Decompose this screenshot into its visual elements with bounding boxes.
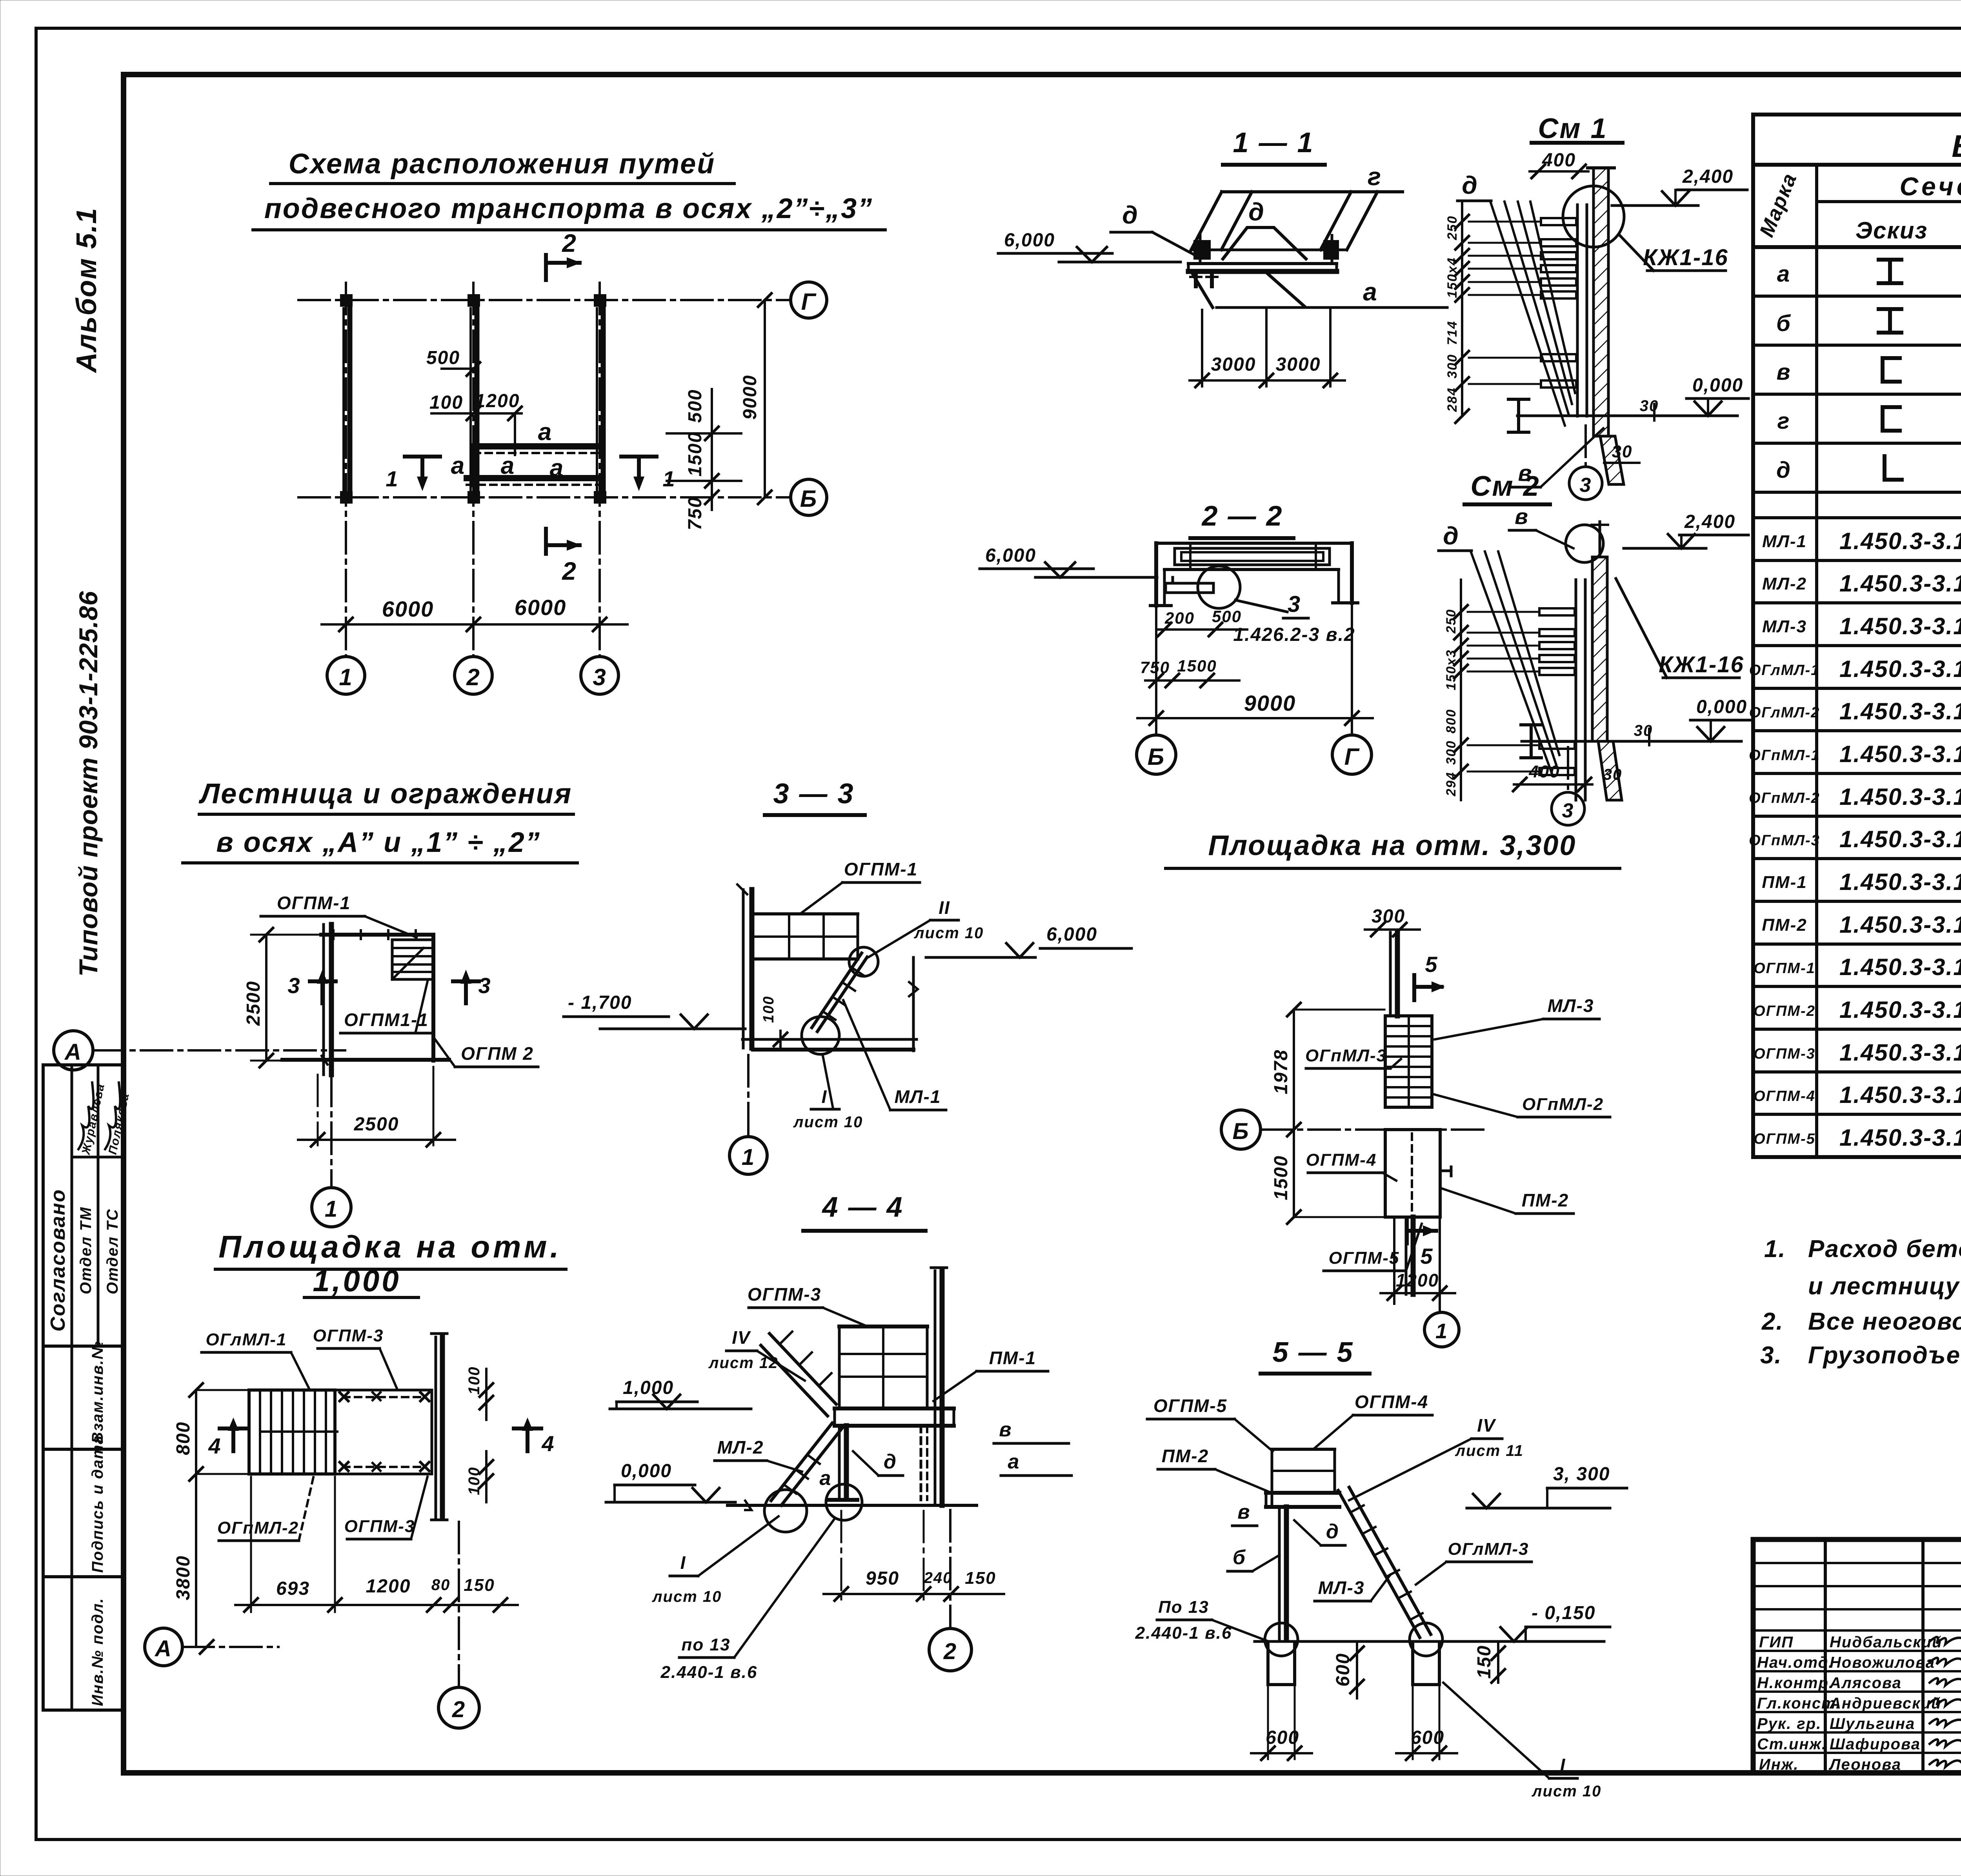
section 2-2 level mark 6.000 xyxy=(980,545,1157,577)
svg-text:1.450.3-3.1: 1.450.3-3.1 xyxy=(1839,1125,1961,1151)
stairs plan railing xyxy=(321,930,433,1061)
svg-text:Гл.конст.: Гл.конст. xyxy=(1757,1695,1841,1712)
platform 3.300 dim 1500 xyxy=(1271,1130,1384,1224)
svg-text:д: д xyxy=(1443,522,1459,550)
section 2-2 dims 200 500 xyxy=(1157,607,1247,636)
stairs plan axis circle 1 xyxy=(312,1075,351,1227)
section 4-4 platform beam xyxy=(835,1408,954,1426)
svg-text:1.450.3-3.1: 1.450.3-3.1 xyxy=(1839,741,1961,767)
platform 3.300 wall beam (top) xyxy=(1390,932,1397,1016)
svg-text:5 — 5: 5 — 5 xyxy=(1272,1337,1353,1368)
svg-text:г: г xyxy=(1368,162,1382,191)
svg-text:1,000: 1,000 xyxy=(623,1377,674,1398)
platform 3.300 section mark 5 (bottom) xyxy=(1407,1218,1436,1268)
section 2-2 axis circle Г xyxy=(1332,726,1372,774)
platform 3.300 wall beam (bottom) xyxy=(1406,1217,1413,1294)
svg-text:3 — 3: 3 — 3 xyxy=(773,778,854,810)
svg-text:I: I xyxy=(822,1086,828,1107)
platform 1.000 dim 800 xyxy=(173,1383,247,1481)
svg-text:Инж.: Инж. xyxy=(1759,1756,1799,1773)
section 5-5 column xyxy=(1279,1507,1286,1639)
svg-text:30: 30 xyxy=(1640,397,1659,415)
svg-text:ОГПМ-5: ОГПМ-5 xyxy=(1754,1131,1815,1147)
svg-text:300: 300 xyxy=(1445,354,1460,378)
section 3-3 title xyxy=(765,778,865,815)
stairs plan section mark 3 (right) xyxy=(453,970,491,1003)
section 3-3 right boundary xyxy=(909,957,918,1051)
svg-text:МЛ-1: МЛ-1 xyxy=(895,1086,941,1107)
svg-text:250: 250 xyxy=(1445,215,1460,240)
rotated text Подпись и дата xyxy=(89,1435,106,1573)
svg-text:6,000: 6,000 xyxy=(1004,230,1055,251)
section 5-5 ground line xyxy=(1255,1640,1588,1643)
svg-text:ОГПМ-3: ОГПМ-3 xyxy=(1754,1046,1815,1062)
section 1-1 floor slab (lower parallelogram) xyxy=(1191,271,1447,308)
svg-text:1.450.3-3.1: 1.450.3-3.1 xyxy=(1839,1082,1961,1108)
svg-text:4: 4 xyxy=(541,1431,555,1456)
svg-text:См 1: См 1 xyxy=(1538,113,1607,144)
svg-text:6000: 6000 xyxy=(515,595,567,620)
section 1-1 label д (left, with leader) xyxy=(1111,201,1195,255)
svg-text:ОГпМЛ-1: ОГпМЛ-1 xyxy=(1749,747,1820,764)
detail Cm1 node circle 3 xyxy=(1569,426,1639,500)
plan axis circle 1 xyxy=(327,657,365,694)
svg-text:II: II xyxy=(939,897,950,918)
platform 1.000 label ОГПМ-3 (bottom) xyxy=(344,1477,427,1539)
svg-text:ОГПМ-5: ОГПМ-5 xyxy=(1329,1248,1400,1268)
section 2-2 bracket detail with circle xyxy=(1166,566,1287,612)
svg-text:лист 10: лист 10 xyxy=(914,924,984,942)
svg-text:МЛ-3: МЛ-3 xyxy=(1762,617,1807,636)
svg-text:Ст.инж.: Ст.инж. xyxy=(1757,1736,1827,1753)
detail Cm1 label КЖ1-16 xyxy=(1619,235,1728,271)
section 5-5 label IV лист 11 xyxy=(1349,1415,1524,1500)
svg-text:Площадка на отм. 3,300: Площадка на отм. 3,300 xyxy=(1208,830,1577,861)
svg-text:Эскиз: Эскиз xyxy=(1855,217,1928,244)
svg-text:Алясова: Алясова xyxy=(1829,1674,1902,1692)
detail Cm2 left dim chain xyxy=(1444,580,1539,800)
section 1-1 monorail beam xyxy=(1188,264,1337,271)
platform 1.000 section mark 4 (left) xyxy=(208,1417,247,1458)
section 3-3 wall post xyxy=(737,884,752,1048)
svg-text:6,000: 6,000 xyxy=(985,545,1036,566)
svg-text:ОГПМ-1: ОГПМ-1 xyxy=(844,859,918,879)
svg-text:6,000: 6,000 xyxy=(1046,924,1097,945)
section 1-1 support connections xyxy=(1193,235,1339,262)
svg-text:Отдел ТМ: Отдел ТМ xyxy=(77,1206,95,1294)
rotated text Отдел ТС + signature xyxy=(104,1083,132,1294)
svg-text:а: а xyxy=(1777,261,1790,287)
svg-text:284: 284 xyxy=(1445,387,1460,412)
svg-text:Нач.отд.: Нач.отд. xyxy=(1757,1654,1834,1671)
svg-text:1.450.3-3.1: 1.450.3-3.1 xyxy=(1839,613,1961,639)
svg-text:б: б xyxy=(1233,1546,1246,1569)
detail Cm2 title xyxy=(1464,471,1550,504)
svg-text:Расход бетона М100 на фунд: Расход бетона М100 на фундаменты под сто… xyxy=(1808,1236,1961,1263)
table row в xyxy=(1776,358,1961,385)
section 3-3 label II лист 10 xyxy=(869,897,984,957)
section 1-1 monorail hump д xyxy=(1223,227,1306,259)
svg-text:2.440-1 в.6: 2.440-1 в.6 xyxy=(1135,1623,1232,1643)
svg-text:100: 100 xyxy=(466,1366,483,1395)
svg-text:IV: IV xyxy=(732,1327,751,1348)
title block signatures (squiggles) xyxy=(1930,1637,1961,1767)
plan axis line 3 xyxy=(598,283,601,656)
platform 3.300 label ОГпМЛ-2 xyxy=(1434,1094,1610,1117)
title block frame xyxy=(1753,1539,1961,1773)
svg-text:693: 693 xyxy=(276,1578,310,1599)
section 5-5 footing right xyxy=(1410,1623,1443,1685)
svg-text:ОГПМ-3: ОГПМ-3 xyxy=(344,1517,415,1536)
svg-text:4: 4 xyxy=(208,1434,221,1458)
svg-text:лист 11: лист 11 xyxy=(1455,1442,1524,1459)
svg-text:в: в xyxy=(1515,504,1529,529)
section 2-2 title xyxy=(1190,500,1293,538)
svg-text:300: 300 xyxy=(1372,906,1405,927)
plan axis line Г xyxy=(298,299,789,301)
platform 3.300 axis Б xyxy=(1221,1110,1486,1149)
svg-text:Б: Б xyxy=(1232,1119,1249,1144)
svg-text:3: 3 xyxy=(1562,799,1574,822)
notes 1-3 xyxy=(1760,1236,1961,1369)
svg-text:а: а xyxy=(451,452,465,479)
section 2-2 dims 750 1500 xyxy=(1140,657,1239,687)
plan axis line 1 xyxy=(345,283,347,656)
svg-text:ОГПМ-4: ОГПМ-4 xyxy=(1754,1088,1815,1104)
section 4-4 tall column xyxy=(931,1268,947,1505)
svg-text:1.450.3-3.1: 1.450.3-3.1 xyxy=(1839,656,1961,682)
plan section mark 2 (top) xyxy=(546,229,581,280)
rotated text Согласовано xyxy=(47,1189,69,1332)
section 5-5 platform beams xyxy=(1266,1493,1339,1507)
section 2-2 dim 9000 xyxy=(1137,603,1373,726)
svg-text:а: а xyxy=(501,452,515,479)
detail Cm2 ladder rungs xyxy=(1539,608,1575,775)
svg-text:6000: 6000 xyxy=(382,597,434,621)
plan axis circle Г xyxy=(791,282,827,318)
detail Cm1 detail circle xyxy=(1563,186,1624,247)
svg-text:294: 294 xyxy=(1444,772,1459,797)
stairs plan dim 2500 (left) xyxy=(243,928,322,1067)
platform 1.000 axis circle А xyxy=(145,1628,278,1666)
section 5-5 label ОГПМ-4 xyxy=(1315,1392,1432,1448)
section 2-2 left support column xyxy=(1150,543,1171,606)
platform 3.300 stair flight plan xyxy=(1385,1016,1432,1107)
svg-text:Андриевский: Андриевский xyxy=(1829,1695,1941,1712)
svg-text:950: 950 xyxy=(866,1568,899,1589)
svg-text:400: 400 xyxy=(1542,150,1576,171)
detail Cm2 level 0.000 xyxy=(1634,697,1750,745)
svg-text:ГИП: ГИП xyxy=(1759,1634,1794,1651)
svg-text:Шульгина: Шульгина xyxy=(1830,1715,1915,1732)
svg-text:1.450.3-3.1: 1.450.3-3.1 xyxy=(1839,997,1961,1023)
svg-text:Типовой проект 903-1-225.86: Типовой проект 903-1-225.86 xyxy=(74,591,103,977)
svg-text:МЛ-2: МЛ-2 xyxy=(717,1437,764,1457)
stairs plan label ОГПМ-1 xyxy=(261,893,417,937)
svg-text:Шафирова: Шафирова xyxy=(1830,1736,1921,1753)
section 4-4 label МЛ-2 xyxy=(715,1437,802,1472)
svg-text:500: 500 xyxy=(426,348,460,368)
svg-text:ОГПМ-4: ОГПМ-4 xyxy=(1306,1150,1377,1170)
section 5-5 level 3.300 xyxy=(1467,1464,1627,1508)
detail Cm2 dim 400 xyxy=(1513,762,1622,791)
svg-text:ОГПМ 2: ОГПМ 2 xyxy=(461,1043,534,1064)
table item rows texts xyxy=(1749,532,1820,1147)
svg-text:Нидбальский: Нидбальский xyxy=(1830,1634,1943,1651)
stairs plan title xyxy=(183,778,577,863)
svg-text:1500: 1500 xyxy=(685,431,706,477)
section 4-4 title xyxy=(803,1192,926,1231)
section 5-5 ladder МЛ-3 xyxy=(1338,1487,1431,1638)
svg-text:80: 80 xyxy=(431,1576,451,1594)
section 5-5 dim 150 (vertical) xyxy=(1474,1641,1505,1683)
svg-text:ОГпМЛ-2: ОГпМЛ-2 xyxy=(1749,790,1820,806)
plan dim 500 xyxy=(426,348,480,376)
svg-text:Б: Б xyxy=(800,486,817,512)
svg-text:д: д xyxy=(884,1450,897,1473)
svg-text:2: 2 xyxy=(943,1639,957,1664)
svg-text:Альбом 5.1: Альбом 5.1 xyxy=(71,207,102,373)
svg-text:500: 500 xyxy=(1212,607,1242,626)
svg-text:д: д xyxy=(1122,201,1139,229)
svg-text:а: а xyxy=(1008,1450,1020,1473)
svg-text:ОГлМЛ-2: ОГлМЛ-2 xyxy=(1749,704,1820,721)
svg-text:ОГпМЛ-3: ОГпМЛ-3 xyxy=(1305,1046,1387,1065)
stairs plan floor edge xyxy=(282,1056,449,1064)
svg-text:1.450.3-3.1: 1.450.3-3.1 xyxy=(1839,784,1961,810)
detail Cm1 dim 400 xyxy=(1530,150,1588,178)
svg-text:д: д xyxy=(1248,198,1265,226)
section 4-4 column xyxy=(828,1426,857,1500)
svg-text:3: 3 xyxy=(1580,474,1592,497)
platform 3.300 dim 1200 + axis 1 xyxy=(1381,1210,1459,1347)
plan axis circle 2 xyxy=(455,657,492,694)
table header texts xyxy=(1755,129,1961,247)
svg-text:600: 600 xyxy=(1411,1727,1444,1748)
rotated text Отдел ТМ + signature xyxy=(77,1082,107,1294)
table Ведомость элементов: grid xyxy=(1753,115,1961,1157)
svg-text:3: 3 xyxy=(287,973,300,998)
plan section mark 2 (bottom) xyxy=(546,529,581,585)
svg-text:3: 3 xyxy=(593,664,606,690)
svg-text:1.426.2-3 в.2: 1.426.2-3 в.2 xyxy=(1233,624,1355,645)
plan dim 9000 (right vertical) xyxy=(740,293,771,504)
svg-text:300: 300 xyxy=(1444,740,1459,765)
section 4-4 label по 13 2.440-1 в.6 xyxy=(660,1519,835,1682)
svg-text:ОГПМ-4: ОГПМ-4 xyxy=(1355,1392,1428,1412)
svg-text:1: 1 xyxy=(742,1145,755,1170)
svg-text:1: 1 xyxy=(325,1196,338,1222)
svg-text:1.450.3-3.1: 1.450.3-3.1 xyxy=(1839,1039,1961,1066)
detail Cm1 label д with fan leaders xyxy=(1457,171,1575,426)
svg-text:30: 30 xyxy=(1612,442,1633,461)
svg-text:800: 800 xyxy=(173,1421,194,1455)
platform 3.300 label ПМ-2 xyxy=(1442,1188,1574,1214)
svg-text:1: 1 xyxy=(1435,1319,1448,1343)
svg-text:подвесного транспорта в осях: подвесного транспорта в осях „2”÷„3” xyxy=(264,193,873,224)
svg-text:Журавлева: Журавлева xyxy=(79,1082,107,1156)
svg-text:100: 100 xyxy=(466,1467,483,1495)
svg-text:2500: 2500 xyxy=(354,1114,399,1135)
section 5-5 labels в б д xyxy=(1228,1501,1345,1571)
svg-text:а: а xyxy=(820,1467,832,1490)
svg-text:600: 600 xyxy=(1333,1653,1353,1687)
svg-text:100: 100 xyxy=(760,996,777,1023)
svg-text:Взам.инв.№: Взам.инв.№ xyxy=(89,1341,106,1443)
detail Cm1 left dim chain xyxy=(1445,203,1541,423)
plan section mark 1 (right) xyxy=(621,457,676,491)
stairs plan section mark 3 (left) xyxy=(287,970,336,1003)
svg-text:Ведомость элементов: Ведомость элементов xyxy=(1952,129,1961,164)
svg-text:2: 2 xyxy=(452,1697,466,1722)
plan dims 100 1200 xyxy=(429,391,522,455)
section 5-5 title xyxy=(1261,1337,1370,1374)
svg-text:1500: 1500 xyxy=(1177,657,1217,675)
section 5-5 dim 600 left xyxy=(1251,1687,1312,1760)
left margin stamp boxes xyxy=(43,1065,124,1710)
svg-text:ОГПМ-5: ОГПМ-5 xyxy=(1153,1396,1227,1416)
rotated text Инв. № подл. xyxy=(89,1598,106,1706)
svg-text:1.450.3-3.1: 1.450.3-3.1 xyxy=(1839,698,1961,724)
svg-text:3.: 3. xyxy=(1760,1342,1782,1369)
section 4-4 label ПМ-1 xyxy=(933,1348,1048,1401)
plan columns (filled squares) xyxy=(340,294,606,504)
svg-text:Новожилова: Новожилова xyxy=(1830,1654,1935,1671)
section 5-5 level -0.150 xyxy=(1501,1603,1610,1641)
section 3-3 floor lines xyxy=(742,1039,917,1050)
svg-text:в: в xyxy=(1776,359,1791,385)
svg-text:ПМ-1: ПМ-1 xyxy=(989,1348,1036,1368)
section 4-4 dims 950 240 150 xyxy=(824,1511,1004,1601)
detail Cm1 ladder rungs xyxy=(1541,218,1576,388)
svg-text:а: а xyxy=(1363,278,1378,306)
platform 1.000 axis circle 2 xyxy=(438,1522,479,1728)
plan bottom dim line 6000 6000 xyxy=(322,595,628,631)
section 1-1 level mark 6.000 xyxy=(998,230,1181,262)
svg-text:- 1,700: - 1,700 xyxy=(568,992,632,1013)
svg-text:ПМ-2: ПМ-2 xyxy=(1762,915,1807,935)
svg-text:3: 3 xyxy=(1288,591,1301,617)
section 3-3 label I лист 10 xyxy=(793,1056,863,1131)
detail Cm1 level 0.000 xyxy=(1640,375,1748,420)
detail Cm2 level 2.400 xyxy=(1624,511,1748,548)
section 5-5 label I лист 10 (bottom) xyxy=(1443,1683,1601,1800)
table row д xyxy=(1776,456,1961,483)
svg-text:ОГлМЛ-1: ОГлМЛ-1 xyxy=(206,1330,287,1349)
detail Cm2 ladder stringers xyxy=(1576,580,1585,800)
section 4-4 node circles xyxy=(764,1484,862,1532)
svg-text:714: 714 xyxy=(1445,320,1460,345)
svg-text:1500: 1500 xyxy=(1271,1155,1292,1200)
section 5-5 label ПМ-2 xyxy=(1158,1446,1268,1491)
platform 1.000 stair flight plan xyxy=(249,1390,337,1474)
svg-text:1: 1 xyxy=(339,664,353,690)
platform 3.300 section mark 5 (top) xyxy=(1414,952,1445,1000)
svg-text:и лестницу - 1,3 м³.: и лестницу - 1,3 м³. xyxy=(1808,1273,1961,1300)
svg-text:3, 300: 3, 300 xyxy=(1553,1464,1610,1485)
platform 3.300 title xyxy=(1166,830,1620,868)
svg-text:5: 5 xyxy=(1425,952,1438,977)
svg-text:1.450.3-3.1: 1.450.3-3.1 xyxy=(1839,954,1961,980)
platform 3.300 label МЛ-3 xyxy=(1435,995,1599,1039)
platform 1.000 landing plan with fence xyxy=(335,1390,432,1474)
svg-text:1.: 1. xyxy=(1764,1236,1786,1263)
section 1-1 title xyxy=(1223,127,1325,165)
svg-text:0,000: 0,000 xyxy=(1696,697,1747,717)
platform 1.000 dim 3800 xyxy=(173,1474,247,1647)
plan axis circle 3 xyxy=(581,657,618,694)
detail Cm1 ladder stringers xyxy=(1577,205,1587,416)
plan vertical beam on axis 2 xyxy=(471,308,477,490)
svg-text:Подпись и дата: Подпись и дата xyxy=(89,1435,106,1573)
section 1-1 dim lines 3000 3000 xyxy=(1190,310,1345,387)
section 4-4 label I лист 10 xyxy=(652,1516,779,1605)
platform 1.000 label ОГлМЛ-1 xyxy=(202,1330,310,1390)
platform 1.000 bottom dim chain 693 1200 80 150 xyxy=(235,1477,518,1612)
platform 1.000 label ОГПМ-3 (top) xyxy=(313,1326,397,1388)
svg-text:б: б xyxy=(1776,311,1791,336)
section 5-5 platform railing xyxy=(1272,1449,1335,1506)
section 4-4 ladder МЛ-2 xyxy=(771,1423,842,1505)
svg-text:МЛ-3: МЛ-3 xyxy=(1318,1578,1365,1598)
svg-text:д: д xyxy=(1776,457,1791,483)
plan axis line Б xyxy=(298,496,789,499)
svg-text:Г: Г xyxy=(801,289,817,315)
section 4-4 strut (dashed) xyxy=(921,1426,927,1500)
plan section mark 1 (left) xyxy=(386,457,440,491)
svg-text:500: 500 xyxy=(685,389,706,423)
rotated text Взам. инв. № xyxy=(89,1341,106,1443)
svg-text:по 13: по 13 xyxy=(682,1635,731,1654)
svg-text:лист 10: лист 10 xyxy=(793,1114,863,1131)
svg-text:600: 600 xyxy=(1266,1727,1299,1748)
svg-text:ОГлМЛ-3: ОГлМЛ-3 xyxy=(1448,1539,1529,1559)
section 1-1 roof slab (top parallelogram) xyxy=(1191,192,1403,250)
svg-text:3000: 3000 xyxy=(1276,354,1321,375)
svg-text:Площадка на отм.: Площадка на отм. xyxy=(218,1229,562,1264)
svg-text:1.450.3-3.1: 1.450.3-3.1 xyxy=(1839,912,1961,938)
svg-text:9000: 9000 xyxy=(740,375,760,420)
svg-text:По 13: По 13 xyxy=(1158,1598,1209,1617)
svg-text:I: I xyxy=(680,1552,686,1573)
svg-text:I: I xyxy=(1560,1755,1566,1775)
svg-text:ПМ-2: ПМ-2 xyxy=(1162,1446,1209,1466)
plan axis circle Б xyxy=(791,479,827,515)
platform 3.300 dim 300 xyxy=(1365,906,1420,936)
detail Cm1 floor beam xyxy=(1508,399,1659,432)
table row a xyxy=(1777,260,1961,287)
detail Cm2 label д with fan leaders xyxy=(1439,522,1559,775)
svg-text:Марка: Марка xyxy=(1755,170,1801,240)
detail Cm1 label в xyxy=(1512,428,1603,487)
detail Cm2 label в (top) xyxy=(1509,504,1574,548)
section 4-4 level 1.000 xyxy=(610,1377,751,1409)
section 5-5 label по 13 2.440-1 в.6 xyxy=(1135,1598,1269,1643)
platform 1.000 dims 100 xyxy=(466,1366,493,1502)
svg-text:150х4: 150х4 xyxy=(1445,257,1460,298)
detail Cm1 title xyxy=(1532,113,1623,144)
plan right dim chain 500 1500 xyxy=(667,389,741,530)
plan axis line 2 xyxy=(472,283,475,656)
detail Cm1 concrete column (hatched) xyxy=(1588,168,1624,484)
svg-text:Инв.№ подл.: Инв.№ подл. xyxy=(89,1598,106,1706)
svg-text:1: 1 xyxy=(386,466,398,491)
svg-text:в: в xyxy=(999,1418,1012,1441)
svg-text:3800: 3800 xyxy=(173,1555,194,1600)
svg-text:30: 30 xyxy=(1603,766,1623,783)
svg-text:в осях „А” и „1” ÷ „2”: в осях „А” и „1” ÷ „2” xyxy=(216,827,541,858)
svg-text:2 — 2: 2 — 2 xyxy=(1201,500,1283,532)
